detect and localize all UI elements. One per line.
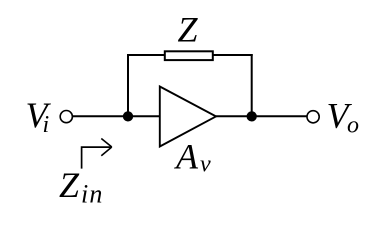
input terminal circle [60, 111, 72, 123]
node: output junction [247, 111, 257, 121]
svg-text:v: v [200, 152, 211, 178]
svg-text:Z: Z [59, 165, 80, 205]
svg-text:Z: Z [178, 10, 199, 50]
svg-text:o: o [347, 113, 359, 139]
resistor Z (impedance box) [165, 51, 213, 60]
wire: feedback top-left horizontal [127, 54, 165, 56]
output wire [216, 115, 308, 117]
input wire [72, 115, 160, 117]
Zin arrow (bent arrow with right-pointing head) [82, 147, 111, 169]
svg-text:A: A [174, 136, 199, 176]
wire: feedback left vertical [127, 55, 129, 116]
wire: feedback right vertical [251, 54, 253, 116]
svg-text:i: i [43, 112, 50, 138]
node: inverting input junction [123, 111, 133, 121]
wire: feedback top-right horizontal [213, 54, 253, 56]
op-amp Av triangle [160, 87, 216, 147]
svg-text:in: in [81, 180, 104, 209]
output terminal circle [307, 111, 319, 123]
